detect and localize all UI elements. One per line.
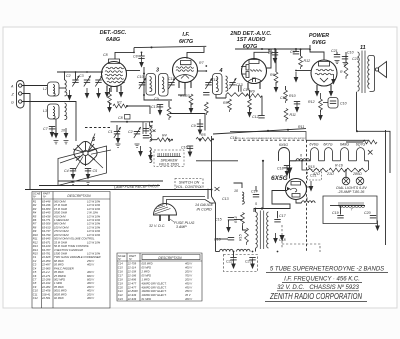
svg-text:63-448: 63-448 xyxy=(42,199,51,203)
svg-text:1/2 W 10%: 1/2 W 10% xyxy=(87,229,101,233)
tube V2 6K7G xyxy=(173,58,198,90)
svg-text:I.F.: I.F. xyxy=(182,32,190,38)
hash ground symbols xyxy=(54,141,140,185)
svg-text:22-896: 22-896 xyxy=(127,277,137,281)
resistor R10 xyxy=(284,90,296,103)
dashed box buffer caps xyxy=(224,255,258,272)
filter transformer primary xyxy=(256,212,258,248)
trimmer C T2 pri xyxy=(205,78,212,89)
svg-text:C1: C1 xyxy=(33,255,37,259)
capacitor C17m xyxy=(151,105,163,116)
svg-text:220 M OHM: 220 M OHM xyxy=(53,233,69,237)
svg-text:C5: C5 xyxy=(33,270,37,274)
resistor R6 xyxy=(270,72,278,93)
svg-text:R3: R3 xyxy=(180,94,185,98)
svg-text:POWER: POWER xyxy=(309,33,329,39)
plate arrow 6X5G xyxy=(287,161,293,179)
svg-text:C12: C12 xyxy=(252,115,259,119)
capacitor C19 xyxy=(332,211,344,218)
output transformer T3 secondary xyxy=(368,56,370,89)
svg-text:63-336: 63-336 xyxy=(42,203,51,207)
choke 7 xyxy=(338,202,365,212)
svg-text:R: R xyxy=(340,70,343,74)
svg-text:R8: R8 xyxy=(33,225,37,229)
trimmer C8 xyxy=(118,115,130,121)
svg-text:0001 MFD: 0001 MFD xyxy=(54,289,67,293)
svg-text:R11: R11 xyxy=(298,125,304,129)
svg-text:R4: R4 xyxy=(162,134,167,138)
switch on vol control box xyxy=(175,179,203,190)
svg-text:2 W 10%: 2 W 10% xyxy=(86,211,99,215)
wire lamp line A xyxy=(58,180,163,182)
ground osc coil xyxy=(138,146,143,157)
capacitor C6 xyxy=(290,50,299,54)
svg-text:C14: C14 xyxy=(251,190,258,194)
wire bottom bus xyxy=(216,251,220,253)
svg-text:C17: C17 xyxy=(279,214,287,218)
svg-text:.25 AMP T-80-36: .25 AMP T-80-36 xyxy=(338,190,365,194)
antenna terminal strip xyxy=(17,81,25,109)
svg-text:NOTE: ALL VOLTAGES MEASURED AT: NOTE: ALL VOLTAGES MEASURED AT SOCKET PI… xyxy=(235,137,306,140)
wire cord diagonal xyxy=(212,197,216,252)
grid cap C8t xyxy=(133,55,145,68)
wire lamp line B xyxy=(39,185,160,187)
ground dial box outer xyxy=(375,221,380,232)
svg-text:0005 MFD: 0005 MFD xyxy=(54,292,67,296)
wire IF1 bottom xyxy=(144,67,172,100)
svg-text:C4: C4 xyxy=(33,266,37,270)
wave trap coil box xyxy=(48,104,60,119)
svg-text:10MFD DRY ELECT.: 10MFD DRY ELECT. xyxy=(142,293,167,297)
svg-text:C3: C3 xyxy=(33,263,37,267)
svg-text:316-41: 316-41 xyxy=(42,292,51,296)
svg-text:R6: R6 xyxy=(33,218,37,222)
wire filter R bottoms xyxy=(243,226,247,231)
svg-text:2 MFD: 2 MFD xyxy=(141,270,150,274)
wire R6 stems xyxy=(275,49,277,72)
svg-text:22-501: 22-501 xyxy=(41,296,51,300)
svg-text:21Ω: 21Ω xyxy=(326,172,334,176)
capacitor C9 xyxy=(191,124,203,135)
svg-text:22-384: 22-384 xyxy=(41,285,51,289)
svg-text:63-781: 63-781 xyxy=(42,252,51,256)
svg-text:22-286: 22-286 xyxy=(41,278,51,282)
svg-text:R-16: R-16 xyxy=(335,164,343,168)
wire osc varcap stems xyxy=(116,125,118,132)
svg-text:5: 5 xyxy=(255,202,257,206)
svg-text:470 M OHM: 470 M OHM xyxy=(54,229,69,233)
svg-text:I.F. FREQUENCY · 456 K.C.: I.F. FREQUENCY · 456 K.C. xyxy=(284,277,360,283)
svg-text:C11: C11 xyxy=(33,292,38,296)
dashed link to dial box xyxy=(282,244,320,252)
svg-text:1/2 W 10%: 1/2 W 10% xyxy=(87,225,101,229)
label speaker field xyxy=(159,159,179,167)
resistor R14 bleeder xyxy=(234,213,244,226)
heater bus wire under arches xyxy=(302,161,308,170)
trimmer C T1 sec xyxy=(168,78,175,89)
svg-text:63-737: 63-737 xyxy=(42,229,51,233)
resistor R11 xyxy=(284,109,296,122)
wire choke stubs xyxy=(330,205,338,207)
svg-text:C13: C13 xyxy=(236,83,243,87)
resistor dial dropping xyxy=(363,140,377,144)
tuning cap C2a xyxy=(84,76,91,87)
svg-text:C16: C16 xyxy=(230,136,237,140)
svg-text:02 MFD: 02 MFD xyxy=(54,296,64,300)
ground antenna coil 1 xyxy=(54,128,59,139)
filter transformer core xyxy=(260,211,263,250)
wire 6V6G grid xyxy=(296,70,311,72)
svg-text:63-871: 63-871 xyxy=(42,240,51,244)
dashed cap box near 6X5G xyxy=(308,170,322,181)
label fuse plug xyxy=(170,219,195,229)
svg-text:R14: R14 xyxy=(33,248,38,252)
svg-text:22-471: 22-471 xyxy=(41,274,51,278)
svg-text:05 MFD: 05 MFD xyxy=(54,270,64,274)
svg-text:R2: R2 xyxy=(117,101,122,105)
wire C4a stem xyxy=(274,49,276,53)
wire C8t down xyxy=(141,52,143,56)
svg-text:56 M OHM TONE CONTROL: 56 M OHM TONE CONTROL xyxy=(54,244,90,248)
chassis line right solid xyxy=(307,139,369,141)
svg-text:R4: R4 xyxy=(33,211,37,215)
trimmer C3a xyxy=(95,76,102,87)
svg-text:C12: C12 xyxy=(33,296,38,300)
ground ant xyxy=(67,90,72,101)
wire 6A8G grid cap xyxy=(115,48,134,59)
svg-text:C13: C13 xyxy=(222,197,229,201)
wire left power edge xyxy=(211,136,213,190)
svg-text:C9: C9 xyxy=(154,97,159,101)
heater wire xyxy=(290,160,311,162)
capacitor C16 filter xyxy=(214,238,234,242)
filament arch 6V6G xyxy=(311,148,319,161)
speaker field coil xyxy=(157,153,181,157)
svg-text:C11: C11 xyxy=(168,77,174,81)
svg-text:32 V. D.C.: 32 V. D.C. xyxy=(149,224,165,228)
svg-text:R15: R15 xyxy=(239,234,243,241)
svg-text:R12: R12 xyxy=(308,100,315,104)
svg-text:C8: C8 xyxy=(103,53,108,57)
label 14 gauge in cord xyxy=(195,203,214,212)
wire Z down left side xyxy=(22,94,30,190)
svg-text:C19: C19 xyxy=(332,211,339,215)
svg-text:40MFD DRY ELECT.: 40MFD DRY ELECT. xyxy=(142,281,167,285)
svg-text:16MFD DRY ELECT.: 16MFD DRY ELECT. xyxy=(142,289,167,293)
capacitor C12 xyxy=(252,115,265,119)
svg-text:R11: R11 xyxy=(290,113,296,117)
svg-text:22-114: 22-114 xyxy=(127,266,137,270)
wire 6V6G plate top xyxy=(310,45,324,60)
svg-text:3 SECTION CANDOHM: 3 SECTION CANDOHM xyxy=(54,248,84,252)
dial light filter box xyxy=(323,196,377,224)
switch X symbol xyxy=(215,187,220,191)
tube V1 6A8G xyxy=(102,59,127,92)
wire coil10 stem xyxy=(234,183,243,188)
wire C6 stem xyxy=(295,49,297,52)
svg-text:C16: C16 xyxy=(118,270,123,274)
capacitor C15m electrolytic xyxy=(203,93,209,95)
dashed chassis right edge xyxy=(306,140,308,252)
IF can T1 secondary xyxy=(159,74,169,97)
svg-text:6V6G: 6V6G xyxy=(309,143,318,147)
svg-text:63-707: 63-707 xyxy=(42,248,51,252)
svg-text:400 V: 400 V xyxy=(185,297,192,301)
title ZENITH RADIO CORPORATION xyxy=(265,292,367,301)
svg-text:ZENITH RADIO CORPORATION: ZENITH RADIO CORPORATION xyxy=(269,292,362,301)
wire diode load xyxy=(225,95,227,99)
svg-text:63-880: 63-880 xyxy=(42,207,51,211)
svg-text:1/2 W 10%: 1/2 W 10% xyxy=(87,199,101,203)
svg-text:1500 OHM: 1500 OHM xyxy=(54,252,68,256)
dashed bleeder vertical xyxy=(281,225,283,248)
svg-text:C20: C20 xyxy=(364,211,371,215)
antenna coil secondary L2 xyxy=(65,80,67,96)
pilot X symbol xyxy=(368,150,373,155)
IF can T2 primary xyxy=(213,74,223,95)
svg-text:6A8G: 6A8G xyxy=(340,143,349,147)
svg-text:C10: C10 xyxy=(340,102,347,106)
wire het bus xyxy=(170,114,205,131)
svg-text:FIELD 150Ω: FIELD 150Ω xyxy=(159,163,179,167)
wire plug resistor xyxy=(207,189,209,199)
svg-text:400 V: 400 V xyxy=(87,281,94,285)
svg-text:G: G xyxy=(11,101,14,105)
svg-text:40MFD DRY ELECT.: 40MFD DRY ELECT. xyxy=(142,285,167,289)
IF can T1 primary xyxy=(146,74,156,96)
wire from arch 6X5G to choke xyxy=(290,160,297,162)
capacitor C23 buffer xyxy=(245,258,256,270)
dashed chassis line xyxy=(234,139,307,141)
capacitor C21 xyxy=(331,49,340,64)
wire G to osc coil xyxy=(22,102,76,142)
wire filter C15 right xyxy=(234,219,243,221)
svg-text:450 V: 450 V xyxy=(185,285,192,289)
resistor R2 xyxy=(113,101,127,108)
speaker xyxy=(375,62,386,78)
svg-text:05 MFD: 05 MFD xyxy=(54,285,64,289)
capacitor C17 filter right xyxy=(274,214,286,222)
wire R13 stems xyxy=(345,52,347,62)
title line 2 xyxy=(282,277,362,283)
wire B+ left xyxy=(150,139,157,141)
label I.F. 6K7G xyxy=(179,32,194,45)
wire osc coil sections xyxy=(149,122,151,126)
wire buffer stubs xyxy=(233,252,235,258)
svg-text:1/2 W 10%: 1/2 W 10% xyxy=(87,252,101,256)
band switch wafer xyxy=(60,134,111,171)
svg-text:22-965: 22-965 xyxy=(41,266,51,270)
resistor R15 bleeder xyxy=(239,228,249,245)
wire 6X5G bottom xyxy=(296,200,302,204)
svg-text:R5: R5 xyxy=(201,133,206,137)
svg-text:DESCRIPTION: DESCRIPTION xyxy=(158,256,182,260)
svg-text:C13: C13 xyxy=(243,88,250,92)
svg-text:C18: C18 xyxy=(277,167,284,171)
svg-text:10: 10 xyxy=(234,189,238,193)
ground C10 under 6V6G xyxy=(331,74,336,85)
svg-text:R6: R6 xyxy=(270,73,275,77)
svg-text:R10: R10 xyxy=(289,94,296,98)
capacitor C10 box bypass xyxy=(323,98,347,109)
svg-text:35 V: 35 V xyxy=(185,293,191,297)
wire ant A upper link xyxy=(59,87,65,89)
svg-text:1/2 W 10%: 1/2 W 10% xyxy=(87,240,101,244)
parts table 2 (condensers) xyxy=(117,253,202,301)
coil 10 osc padder xyxy=(234,189,244,204)
title line 3 xyxy=(277,284,360,291)
svg-text:C2: C2 xyxy=(128,130,133,134)
svg-text:32 V. D.C. CHASSIS Nº 5923: 32 V. D.C. CHASSIS Nº 5923 xyxy=(277,284,359,291)
tube V5 6X5G rectifier xyxy=(286,179,307,200)
wire ant A to coil xyxy=(22,85,48,87)
wire varcap stems xyxy=(75,72,77,80)
oscillator coil 2 upper xyxy=(150,126,152,141)
capacitor C18h below 6X5G arch xyxy=(277,166,290,177)
svg-text:400 V: 400 V xyxy=(87,263,94,267)
wire R12 stems xyxy=(300,49,302,56)
label 2ND DET-AVC 1ST AUDIO 6Q7G xyxy=(229,31,272,50)
svg-text:22-477: 22-477 xyxy=(127,281,137,285)
dial light 2 xyxy=(356,177,364,185)
osc coil taps xyxy=(143,122,156,134)
wire heater feed left xyxy=(196,160,238,162)
wire C19 C20 stubs xyxy=(340,206,342,215)
wire AVC bus xyxy=(213,129,306,134)
svg-text:400 V: 400 V xyxy=(87,270,94,274)
svg-text:500 M OHM VOLUME CONTROL: 500 M OHM VOLUME CONTROL xyxy=(54,237,95,241)
ground grid leak 6V6 xyxy=(294,72,299,83)
svg-text:400 V: 400 V xyxy=(87,296,94,300)
resistor R4 xyxy=(157,134,171,142)
tuning cap C1a xyxy=(72,76,79,87)
svg-text:410 OHM: 410 OHM xyxy=(54,214,66,218)
wire 6X5G cathode loop xyxy=(254,191,290,213)
wire grid top row xyxy=(57,71,103,73)
diode load resistor xyxy=(226,93,248,97)
wire right top link xyxy=(357,131,390,173)
svg-text:400 V: 400 V xyxy=(185,266,192,270)
wire R1 top xyxy=(109,88,111,94)
wire 6Q7G plate xyxy=(267,49,272,68)
fuse plug dome xyxy=(154,204,177,222)
svg-text:1 MFD: 1 MFD xyxy=(142,277,150,281)
svg-text:14 GAUGE: 14 GAUGE xyxy=(195,203,214,207)
svg-text:C15: C15 xyxy=(118,266,123,270)
trimmer C T1 pri xyxy=(139,78,146,89)
svg-text:L2: L2 xyxy=(43,87,47,91)
svg-text:1/2 W 10%: 1/2 W 10% xyxy=(87,207,101,211)
band switch plate outline xyxy=(58,146,107,186)
svg-text:5 TUBE SUPERHETERODYNE -2 BAND: 5 TUBE SUPERHETERODYNE -2 BANDS xyxy=(270,267,384,273)
svg-text:C10: C10 xyxy=(347,51,354,55)
svg-text:05 MFD: 05 MFD xyxy=(54,263,64,267)
svg-text:3: 3 xyxy=(156,68,159,74)
svg-text:C16: C16 xyxy=(214,238,221,242)
svg-text:SWITCH ON: SWITCH ON xyxy=(179,181,200,185)
svg-text:TWO GANG VARIABLE CONDENSER: TWO GANG VARIABLE CONDENSER xyxy=(54,255,101,259)
svg-text:DESCRIPTION: DESCRIPTION xyxy=(67,194,91,198)
svg-text:63-160: 63-160 xyxy=(42,244,51,248)
wire heater right drop xyxy=(365,161,369,170)
svg-text:6: 6 xyxy=(300,154,302,158)
svg-text:6K7G: 6K7G xyxy=(323,143,332,147)
svg-text:C21: C21 xyxy=(352,57,359,61)
resistor heater 280ohm xyxy=(346,168,368,176)
svg-text:C6: C6 xyxy=(33,274,37,278)
svg-text:C8: C8 xyxy=(33,281,37,285)
wire right verticals xyxy=(385,130,387,245)
svg-text:R9: R9 xyxy=(33,229,37,233)
ground R8b xyxy=(247,107,252,118)
resistor R18 xyxy=(167,107,171,120)
svg-text:22-477: 22-477 xyxy=(127,285,137,289)
svg-text:C12: C12 xyxy=(211,78,218,82)
svg-text:L3: L3 xyxy=(43,109,47,113)
wire arch links xyxy=(319,160,325,162)
svg-text:22-2-2: 22-2-2 xyxy=(41,270,50,274)
svg-text:C14: C14 xyxy=(280,96,287,100)
svg-text:450 V: 450 V xyxy=(185,281,192,285)
svg-text:C14: C14 xyxy=(118,262,123,266)
svg-text:22-014: 22-014 xyxy=(41,281,51,285)
wire transformer bottoms xyxy=(255,248,257,251)
wire coil bottoms to ground xyxy=(55,119,57,133)
svg-text:C16: C16 xyxy=(181,146,188,150)
svg-text:01 MFD: 01 MFD xyxy=(142,297,152,301)
svg-text:400 V: 400 V xyxy=(87,289,94,293)
svg-text:1ST AUDIO: 1ST AUDIO xyxy=(237,37,266,43)
svg-text:R15: R15 xyxy=(33,252,38,256)
svg-text:11: 11 xyxy=(360,45,366,51)
svg-text:C2: C2 xyxy=(66,74,71,78)
svg-text:1 MFD: 1 MFD xyxy=(54,281,62,285)
wire het verticals xyxy=(168,101,170,107)
wire R8b top xyxy=(249,90,251,99)
svg-text:DET.-OSC.: DET.-OSC. xyxy=(100,30,127,36)
wire 6X5G plate feed xyxy=(289,161,291,179)
svg-text:C9: C9 xyxy=(191,124,196,128)
wire C12 column xyxy=(261,96,263,116)
svg-text:600 V: 600 V xyxy=(87,274,94,278)
wire R10 R11 column xyxy=(285,86,287,90)
svg-text:6V6G: 6V6G xyxy=(312,40,327,46)
svg-text:R7: R7 xyxy=(33,222,37,226)
oscillator coil L3 xyxy=(65,103,67,120)
filament arch 6Q7G xyxy=(357,148,365,161)
svg-text:6X5G: 6X5G xyxy=(271,175,288,182)
wire transformer bottom down xyxy=(356,92,358,132)
wire top rail 1 xyxy=(134,46,206,47)
svg-text:22-759: 22-759 xyxy=(127,262,137,266)
svg-text:680 OHM: 680 OHM xyxy=(54,222,66,226)
svg-text:47 M OHM: 47 M OHM xyxy=(54,203,68,207)
svg-text:R5: R5 xyxy=(33,214,37,218)
svg-text:3 AMP: 3 AMP xyxy=(176,225,187,229)
padder caps C3 xyxy=(143,129,149,138)
resistor R17m xyxy=(204,102,208,115)
dashed gang line xyxy=(85,127,110,129)
scattered part labels xyxy=(43,53,359,206)
ground tuning gang 1 xyxy=(85,88,90,99)
svg-text:22-949: 22-949 xyxy=(127,293,137,297)
title line 1 xyxy=(266,267,388,273)
capacitor C15 filter xyxy=(215,218,234,222)
ground antenna coil 2 xyxy=(64,128,69,139)
output transformer core xyxy=(362,51,365,94)
ground dashed bleeder xyxy=(279,235,284,241)
hum bucking coil b xyxy=(237,249,251,251)
